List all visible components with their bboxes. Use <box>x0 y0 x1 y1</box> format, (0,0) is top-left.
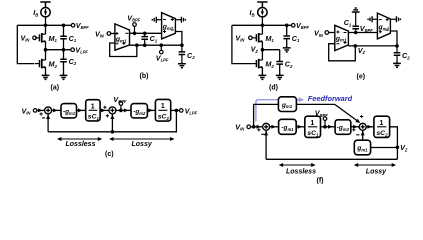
wire gm2 plus output (b) <box>175 19 181 21</box>
wire M2 drain (d) <box>261 50 263 60</box>
ground above C1 (e) <box>352 8 360 14</box>
svg-text:Lossless: Lossless <box>66 141 96 148</box>
wire gm1 feedback into summer2 (f) <box>362 130 364 140</box>
wire gm1 feedback loop (e) <box>329 44 356 61</box>
svg-text:Feedforward: Feedforward <box>308 94 353 103</box>
junction VLPF stub (b) <box>160 43 164 47</box>
wire VBPF stub (c) <box>120 105 122 110</box>
block 1/sC2 (c) <box>155 99 170 121</box>
ac ground gm2 output (e) <box>396 16 400 22</box>
junction feedforward tap (f) <box>252 125 256 129</box>
block 1/sC1 (f) <box>305 116 321 137</box>
svg-text:(d): (d) <box>269 85 278 92</box>
wire feedback into summer2 (c) <box>111 114 113 132</box>
node VBPF port (c) <box>119 102 123 106</box>
arrow into sC2 (c) <box>148 108 152 112</box>
wire M2 source (d) <box>261 67 263 73</box>
node input port (e) <box>325 31 329 35</box>
arrow summer1 to gm1 (f) <box>271 125 275 129</box>
transistor M1 (a) <box>35 33 46 43</box>
lossless arrow (f) <box>279 163 316 167</box>
wire feedback VBPF to M2 gate (d) <box>232 25 252 63</box>
current source IB (d) <box>258 8 267 17</box>
feedforward annotation line (f) <box>256 100 299 122</box>
node VLPF port (c) <box>179 109 183 113</box>
wire VBPF rail (d) <box>232 24 292 26</box>
node VBPF port (d) <box>291 24 295 28</box>
transistor M1 (d) <box>252 33 263 43</box>
transistor M2 (a) <box>35 59 46 69</box>
wire gm2 to summer2 (f) <box>351 126 359 128</box>
arrow feedforward into summer2 (f) <box>355 119 361 125</box>
capacitor C1 (b) <box>141 33 148 45</box>
current source IB (a) <box>41 8 50 17</box>
junction C1 top (d) <box>285 24 289 28</box>
wire feedforward to summer2 (f) <box>296 104 359 122</box>
block 1/sC1 (c) <box>86 100 100 121</box>
svg-text:Lossy: Lossy <box>132 141 153 148</box>
capacitor C1 (e) <box>352 14 359 33</box>
wire VBPF stub (b) <box>134 26 136 33</box>
junction C1 bottom (a) <box>62 48 66 52</box>
wire VIN to summer1 (f) <box>251 126 263 128</box>
wire feedback rail (f) <box>266 158 397 160</box>
node VIN port (f) <box>247 125 251 129</box>
wire sC1 to summer2 (c) <box>100 109 109 111</box>
wire gm1 to sC1 block (f) <box>296 126 305 128</box>
junction VBPF (f) <box>323 125 327 129</box>
capacitor C2 (a) <box>60 50 67 74</box>
svg-text:(b): (b) <box>140 73 149 80</box>
wire VZ rail (d) <box>262 49 279 51</box>
wire M1 drain (d) <box>261 25 263 34</box>
junction VZ (f) <box>396 146 400 150</box>
wire sC2 to VZ (f) <box>390 127 398 160</box>
junction C1 top (a) <box>62 24 66 28</box>
ground under M2 (d) <box>259 74 267 80</box>
wire IB to VBPF rail (d) <box>261 17 263 26</box>
ground under C2 (e) <box>393 62 401 68</box>
block gm1 feedback (f) <box>354 140 370 155</box>
VDD rail (a) <box>40 2 50 8</box>
ground under C2 (a) <box>60 74 68 80</box>
svg-text:1: 1 <box>91 103 95 110</box>
wire VZ to gm1 feedback block (f) <box>371 147 398 149</box>
capacitor C1 (d) <box>283 25 290 46</box>
ground under C2 (d) <box>276 74 284 80</box>
node VIN port (c) <box>33 109 37 113</box>
svg-text:1: 1 <box>310 120 314 127</box>
svg-text:(f): (f) <box>317 178 324 185</box>
op-amp gm2 (b) <box>162 13 176 39</box>
minus sign summer2 feedback (f) <box>356 134 359 136</box>
wire M2 source (a) <box>45 67 47 73</box>
plus sign summer2 ff (f) <box>360 115 363 118</box>
wire feedback into summer1 (f) <box>265 130 267 159</box>
wire M1 source to VLPF (a) <box>45 41 47 49</box>
block gm1 feedforward (f) <box>278 97 296 112</box>
wire gm2 minus input (e) <box>372 18 377 20</box>
wire IB to VBPF rail (a) <box>45 17 47 26</box>
minus sign summer1 feedback (c) <box>42 117 45 119</box>
op-amp gm2 (e) <box>377 13 390 39</box>
junction C2 top (e) <box>395 44 399 48</box>
node input port (b) <box>107 32 111 36</box>
svg-text:Lossy: Lossy <box>366 168 387 175</box>
block -gm2 (f) <box>335 120 351 135</box>
wire sC2 to VLPF (c) <box>171 109 180 111</box>
node VBPF port (a) <box>71 24 75 28</box>
plus sign summer2 input (f) <box>352 128 355 131</box>
svg-text:Lossless: Lossless <box>286 168 316 175</box>
arrow feedback summer1 (f) <box>264 131 268 135</box>
wire summer2 to gm2 block (c) <box>116 109 131 111</box>
junction M1 source M2 drain (a) <box>44 48 48 52</box>
wire VBPF rail (a) <box>17 24 71 26</box>
node VLPF port (b) <box>160 50 164 54</box>
junction feedback loop (b) <box>135 43 139 47</box>
arrow into summer1 (c) <box>38 108 42 112</box>
wire VIN to summer1 (c) <box>37 109 45 111</box>
wire feedback rail (c) <box>48 110 176 131</box>
summer S2 (c) <box>109 107 116 114</box>
ac ground gm2 output (b) <box>181 17 185 23</box>
wire VLPF stub (b) <box>160 45 162 50</box>
wire VLPF rail (a) <box>46 49 71 51</box>
node VIN port (a) <box>33 36 37 40</box>
svg-text:1: 1 <box>380 120 384 127</box>
junction M1 drain (a) <box>44 24 48 28</box>
svg-text:1: 1 <box>161 103 165 110</box>
node VIN port (d) <box>249 36 253 40</box>
arrow into sC2 (f) <box>367 125 371 129</box>
ground under C2 (b) <box>178 62 186 68</box>
wire sC1 to gm2 block (f) <box>321 126 336 128</box>
wire gm1 top output (b) <box>130 32 162 34</box>
summer S1 (c) <box>45 107 52 114</box>
junction feedback loop (e) <box>354 44 358 48</box>
ac ground gm2 input (b) <box>152 17 156 23</box>
wire gm1 bottom output rail (b) <box>130 44 182 46</box>
plus sign summer1 input (f) <box>257 128 260 131</box>
arrow feedback summer2 (f) <box>361 131 365 135</box>
summer S2 (f) <box>359 123 366 130</box>
junction rail summer2 (c) <box>111 130 115 134</box>
junction M1 drain (d) <box>261 24 265 28</box>
arrow feedback summer1 (c) <box>46 115 50 119</box>
minus sign summer1 feedback (f) <box>261 133 264 135</box>
node VBPF port (b) <box>133 23 137 27</box>
svg-text:(c): (c) <box>105 151 114 158</box>
wire feedback VBPF to M2 gate (a) <box>17 25 34 63</box>
wire gm1 feedback loop (b) <box>110 43 137 57</box>
lossy arrow (c) <box>109 137 174 141</box>
junction VLPF feedback (c) <box>175 109 179 113</box>
ac ground gm2 input (e) <box>368 16 372 22</box>
wire gm2 to sC2 block (c) <box>147 109 155 111</box>
plus sign summer2 input (c) <box>103 106 106 109</box>
op-amp gm1 (e) <box>335 25 349 50</box>
plus sign summer1 input (c) <box>40 112 43 115</box>
junction C2 top (b) <box>180 43 184 47</box>
junction VZ (d) <box>261 48 265 52</box>
feedforward annotation arrow (f) <box>299 97 305 102</box>
wire gm2 minus input (b) <box>157 19 162 21</box>
capacitor C2 (d) <box>276 50 283 74</box>
junction C1 bottom (b) <box>143 43 147 47</box>
lossy arrow (f) <box>354 163 396 167</box>
wire input to gm1 (e) <box>329 32 335 34</box>
svg-text:(e): (e) <box>357 74 366 81</box>
op-amp gm1 (b) <box>115 24 130 50</box>
arrow into summer2 (c) <box>101 108 105 112</box>
summer S1 (f) <box>263 123 270 130</box>
plus sign summer2 feedback (c) <box>106 114 109 117</box>
wire M1 source to VZ (d) <box>261 41 263 49</box>
arrow into summer1 (f) <box>257 125 261 129</box>
wire summer1 to gm1 block (c) <box>52 109 61 111</box>
wire gm2 plus output (e) <box>390 18 396 20</box>
wire VZ rail (e) <box>348 45 397 47</box>
wire feedback into summer1 (c) <box>47 114 49 132</box>
wire gm2 bottom output to rail (b) <box>175 32 182 46</box>
VDD rail (d) <box>257 2 267 8</box>
wire VBPF stub (f) <box>324 120 326 126</box>
capacitor C2 (e) <box>394 46 401 62</box>
wire M1 drain (a) <box>45 25 47 34</box>
junction C1 top (b) <box>143 32 147 36</box>
wire gm1 output VBPF (e) <box>348 32 377 34</box>
arrow into gm2 (c) <box>124 108 128 112</box>
wire gm2 bottom output to VZ rail (e) <box>390 31 397 46</box>
block 1/sC2 (f) <box>374 116 390 137</box>
capacitor C1 (a) <box>60 25 67 49</box>
block -gm2 (c) <box>131 104 147 118</box>
block -gm1 (f) <box>279 119 297 134</box>
wire feedforward up (f) <box>254 104 279 126</box>
wire summer1 to gm1 block (f) <box>270 126 279 128</box>
transistor M2 (d) <box>252 59 263 69</box>
node VBPF port (f) <box>323 117 327 121</box>
ground under C1 (d) <box>283 46 291 52</box>
lossless arrow (c) <box>57 137 102 141</box>
arrow feedback summer2 (c) <box>110 115 114 119</box>
block -gm1 (c) <box>61 104 77 118</box>
svg-text:(a): (a) <box>51 85 60 92</box>
wire M2 drain (a) <box>45 50 47 60</box>
arrow into gm2 (f) <box>328 125 332 129</box>
wire summer2 to sC2 block (f) <box>366 126 374 128</box>
arrow into summer2 (f) <box>353 125 357 129</box>
junction VBPF stub (b) <box>133 32 137 36</box>
capacitor C2 (b) <box>179 45 186 62</box>
arrow summer1 to gm1 (c) <box>53 108 57 112</box>
arrow into sC1 (f) <box>298 125 302 129</box>
junction C1 bottom (e) <box>354 31 358 35</box>
wire input to gm1 (b) <box>111 33 115 35</box>
arrow into sC1 (c) <box>78 108 82 112</box>
wire gm1 to sC1 block (c) <box>77 109 86 111</box>
junction VBPF (c) <box>119 109 123 113</box>
node VLPF port (a) <box>71 48 75 52</box>
ground under M2 (a) <box>42 74 50 80</box>
